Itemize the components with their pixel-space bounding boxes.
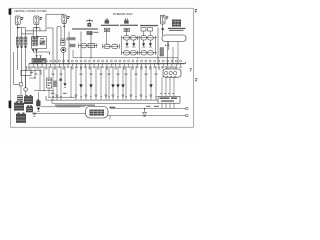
fuse F4 [160, 15, 168, 24]
diode at x91 [90, 84, 93, 87]
wires right to relay block [160, 66, 176, 96]
motor M1 [61, 47, 66, 64]
fuse F3 [62, 15, 70, 23]
diode at x81 [80, 84, 83, 87]
switch S3b [124, 20, 128, 23]
inline connector B1 [19, 83, 22, 86]
pin labels above bottom box [52, 95, 157, 97]
wire labels mid [52, 74, 158, 75]
inline connector row2 col2 [20, 42, 23, 46]
connector arrow below fuse F4 [161, 28, 164, 35]
door switch chain left [78, 43, 102, 48]
label right of motor M1 [67, 38, 72, 41]
interior lamp row upper [121, 36, 157, 40]
stub below ground line [109, 116, 111, 120]
connector boxes left of ignition [141, 28, 153, 36]
bus junction dots [36, 63, 178, 64]
inline connector row1 col4 [32, 37, 35, 41]
wire end connector lower [185, 114, 188, 116]
relay R2 in junction block [32, 58, 46, 63]
bus terminal ticks [29, 64, 181, 66]
ignition switch label [168, 28, 186, 31]
bottom label text row [55, 105, 95, 108]
wire fuse F3 output [63, 23, 65, 39]
label under antenna [72, 28, 98, 29]
resistor block right [160, 48, 164, 56]
relay box lower-left [21, 66, 41, 76]
bottom junction block edge1 [46, 96, 158, 100]
wire bus link left cluster [18, 28, 46, 47]
labels near S5 [30, 72, 67, 94]
wire far-left branch [14, 52, 20, 84]
switch body S3 [61, 39, 65, 45]
antenna symbol A1 [86, 19, 92, 27]
wire loop junction connector [162, 35, 186, 42]
collector wire y90.7 [34, 90, 54, 91]
main bus wire [29, 62, 186, 64]
interior lamp row lower [121, 51, 157, 55]
wire from battery to fuse F3 [46, 14, 64, 31]
label plate right of S5 [54, 81, 58, 88]
inline connector row2 col1 [16, 42, 19, 46]
label plate door switches [70, 37, 76, 47]
wire left column C down [25, 49, 27, 88]
diode pack right [163, 69, 181, 77]
lamp rail wires [122, 40, 156, 51]
feeder wire above bus [73, 57, 178, 58]
label component S2 [101, 25, 119, 26]
wire riser S4 [38, 92, 40, 101]
svg-text:CENTRAL LOCKING SYSTEM: CENTRAL LOCKING SYSTEM [14, 9, 47, 13]
connector arrow col5 [35, 49, 38, 51]
wire code labels below bus [28, 67, 182, 70]
actuator block M5 [26, 105, 33, 112]
ground return wire lower [34, 114, 186, 116]
inline connector row2 col4 [32, 42, 35, 46]
connector arrow col3 [24, 46, 27, 48]
wire centre risers [47, 27, 69, 64]
page number top-right [195, 9, 197, 12]
fuse F2 [34, 16, 42, 25]
ground return wire upper [41, 107, 185, 109]
wire into buzzer [21, 86, 26, 96]
diode at x151 [150, 84, 153, 87]
wire fuse F1 output [17, 25, 19, 47]
wires relay block to ground line [162, 103, 174, 108]
diode at x123 [122, 84, 125, 87]
door lock motor M6 [16, 113, 26, 123]
wire risers through switch rows [81, 28, 158, 64]
inline connector row2 col5 [35, 42, 38, 46]
inline connector row1 col1 [16, 37, 19, 41]
wire drop x71 [70, 66, 72, 97]
wire end connector upper [185, 107, 188, 109]
wires below loop [163, 31, 178, 64]
ignition text small right [190, 68, 192, 71]
connector box under antenna [87, 31, 99, 35]
switch S2 [105, 19, 109, 24]
connector face view [86, 107, 109, 119]
diode at x118 [117, 84, 120, 87]
ground arrow mid [64, 83, 67, 87]
connector arrow col1 [16, 46, 19, 48]
door lock motor M4 [14, 101, 24, 110]
door switch chain left part2 [103, 44, 120, 49]
pin numbers below loop [165, 45, 169, 46]
svg-text:INTERIOR LIGHT: INTERIOR LIGHT [113, 12, 133, 16]
page index tab top-left [9, 9, 12, 15]
wire left column B down [21, 49, 23, 83]
inline connector row2 col3 [24, 42, 27, 46]
relay R1 [32, 36, 47, 49]
ground arrows lamp row upper [125, 40, 152, 47]
diode at x113 [112, 84, 115, 87]
ground arrow below S4 [37, 108, 40, 112]
bottom junction block edge2 [52, 99, 158, 103]
pin marks 11 [125, 18, 127, 20]
buzzer (striped) [17, 95, 23, 101]
door lock motor M3 [24, 95, 33, 104]
wire fuse F4 output [162, 24, 164, 28]
label component S3b [120, 25, 138, 26]
ground chevrons near motors [33, 113, 36, 116]
ground label G1 [146, 106, 159, 107]
wire fuse F2 output [36, 25, 38, 47]
connector box S3b [124, 28, 129, 31]
connector arrow col2 [20, 46, 23, 48]
sensor block S4 [36, 99, 40, 106]
motor M2 small circle [24, 76, 28, 92]
wires bus to bottom connectors [53, 66, 156, 100]
terminal pins on J/B [35, 56, 42, 59]
inline connector row1 col5 [35, 37, 38, 41]
wire to relay R1 [33, 52, 36, 56]
relay block label box right [158, 96, 180, 103]
connector box S2 [104, 28, 109, 31]
wire left column A down [17, 49, 19, 70]
junction block J/B top edge [33, 52, 50, 55]
inline connector row1 col2 [20, 37, 23, 41]
wire drops left of junction [29, 66, 49, 97]
terminal labels above bus [45, 60, 181, 62]
wire to ground mid [64, 66, 66, 83]
wire riser to feeder [72, 50, 74, 58]
connector label [109, 107, 115, 108]
door lock switch S5 [47, 78, 52, 88]
ignition switch block SW1 [172, 20, 181, 27]
small connector square [60, 79, 62, 81]
margin note right [195, 78, 197, 81]
label left of ignition switch [140, 25, 158, 26]
connector arrow col4 [32, 49, 35, 51]
collector wire y97.2 [48, 97, 76, 98]
page index tab bottom-left [9, 101, 12, 109]
ground point G1 [143, 108, 147, 117]
inline connector row1 col3 [24, 37, 27, 41]
fuse F1 [15, 16, 23, 25]
